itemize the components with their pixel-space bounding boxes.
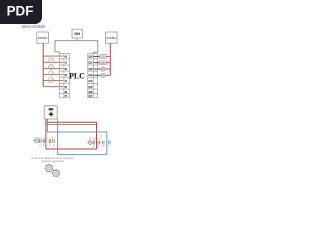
wire red return row 2 [107, 62, 111, 64]
svg-text:PDF: PDF [7, 4, 34, 19]
wire bus right jog [93, 52, 98, 53]
svg-text:I7: I7 [65, 94, 68, 98]
contact KM8 [109, 141, 111, 145]
yellow wire right [100, 134, 102, 138]
contact KM6 [98, 141, 100, 145]
right 24VDC box [106, 32, 118, 43]
relay K2 [99, 61, 106, 65]
left cluster lower marks [40, 144, 53, 147]
wire top bus [55, 41, 98, 53]
contact KM4 [53, 139, 56, 143]
svg-text:Q4: Q4 [88, 79, 92, 83]
wire red rail bottom [46, 148, 97, 150]
lamp H2 [101, 73, 105, 77]
wire red return row 3 [105, 68, 110, 70]
contact KM2 [42, 139, 45, 143]
sensor S4 [49, 78, 54, 83]
wire red vertical right [96, 122, 98, 149]
motor M2 [87, 141, 92, 145]
sensor S1 [49, 58, 54, 63]
svg-text:24VDC: 24VDC [106, 36, 117, 40]
wire output row 2 [93, 62, 99, 64]
PLC left terminal labels [65, 55, 68, 98]
wire blue rail bottom [58, 154, 107, 156]
power supply box [44, 106, 57, 119]
svg-text:du moteur asynchrone: du moteur asynchrone [41, 160, 65, 163]
PLC left terminal ladder [59, 53, 69, 98]
svg-text:ON: ON [74, 31, 80, 36]
power supply icon star [48, 111, 54, 117]
svg-text:Q2: Q2 [88, 67, 92, 71]
svg-text:I1: I1 [65, 61, 68, 65]
wire red rail top lower [46, 124, 97, 126]
wire input stub 5 [43, 80, 63, 82]
wire blue drop from supply [47, 119, 106, 155]
yellow wire left [52, 136, 54, 139]
wire output row 1 [93, 55, 99, 57]
wire output row 4 [93, 74, 101, 76]
svg-text:24VDC: 24VDC [38, 36, 49, 40]
svg-text:I4: I4 [65, 79, 68, 83]
contact KM3 [48, 139, 50, 143]
wire red drop from supply [45, 119, 47, 149]
svg-text:Q7: Q7 [88, 94, 92, 98]
relay K1 [99, 55, 106, 59]
svg-text:Schema de cablage du circuit c: Schema de cablage du circuit commande [31, 157, 74, 160]
wire input stub 3 [43, 67, 63, 69]
svg-text:I0: I0 [65, 55, 68, 59]
gear icon 1 [44, 164, 53, 173]
svg-text:I3: I3 [65, 73, 68, 77]
left 24VDC box [37, 32, 49, 43]
wire bus left jog [55, 52, 59, 54]
right cluster lower marks [94, 145, 103, 147]
ON box [72, 29, 82, 38]
wire input stub 2 [43, 61, 63, 63]
wire blue vertical left [57, 119, 59, 155]
svg-text:Q1: Q1 [88, 61, 92, 65]
svg-text:Q0: Q0 [88, 55, 92, 59]
contact KM7 [102, 141, 104, 145]
svg-text:PLC: PLC [69, 72, 85, 81]
gear icon 2 [52, 169, 60, 177]
PDF badge [0, 0, 42, 24]
wire red rail top upper [46, 121, 97, 123]
lamp H1 [101, 67, 105, 71]
wire red supply vertical right [109, 43, 111, 75]
svg-text:Q3: Q3 [88, 73, 92, 77]
wire input stub 4 [43, 74, 63, 76]
svg-text:K1M: K1M [100, 56, 105, 59]
motor M1 [33, 139, 38, 143]
wire red supply vertical left [42, 43, 44, 86]
PLC right terminal ladder [88, 53, 98, 98]
wire output row 3 [93, 68, 101, 70]
svg-text:F2 KM3 KM4: F2 KM3 KM4 [89, 139, 102, 141]
contact KM1 [39, 139, 42, 143]
PLC right terminal labels [88, 55, 92, 98]
wire red return row 4 [105, 74, 110, 76]
svg-text:I5: I5 [65, 85, 68, 89]
sensor S3 [49, 71, 54, 76]
svg-text:Devoir2&M: Devoir2&M [22, 24, 45, 29]
wire input stub 1 [43, 55, 63, 57]
svg-text:K2M: K2M [100, 62, 105, 65]
wire input stub 6 [43, 86, 63, 88]
svg-text:I2: I2 [65, 67, 68, 71]
power supply icon bar [49, 108, 54, 110]
sensor S2 [49, 64, 54, 69]
svg-text:F1 KM1 KM2: F1 KM1 KM2 [34, 137, 47, 139]
contact KM5 [92, 141, 94, 145]
svg-text:Q5: Q5 [88, 85, 92, 89]
wire ON box stub [76, 38, 78, 41]
wire red return row 1 [107, 55, 111, 57]
